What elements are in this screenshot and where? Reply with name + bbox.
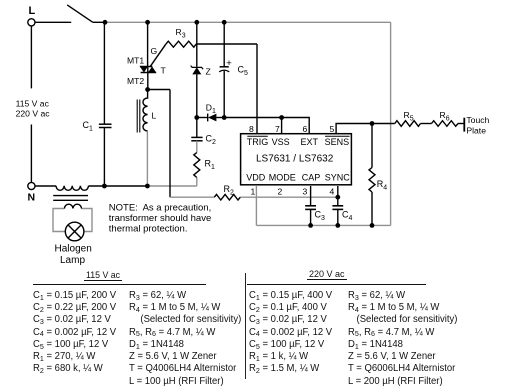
- wire R5 to R6: [421, 123, 432, 125]
- triac T: [140, 22, 156, 89]
- svg-text:VDD: VDD: [246, 172, 266, 182]
- node top junction switch: [103, 20, 108, 25]
- capacitor C1: [99, 22, 112, 186]
- svg-text:CAP: CAP: [302, 172, 321, 182]
- wire transformer to C1 junction: [89, 185, 148, 187]
- table 115 right column: [129, 290, 241, 388]
- svg-text:G: G: [151, 46, 158, 56]
- svg-text:NOTE: As a precaution,: NOTE: As a precaution,: [109, 203, 211, 214]
- svg-text:C3: C3: [315, 210, 326, 223]
- svg-text:L: L: [29, 5, 36, 17]
- svg-text:6: 6: [303, 124, 308, 134]
- svg-text:SENS: SENS: [325, 137, 350, 147]
- IC U1 LS7631/LS7632: [241, 134, 352, 185]
- touch plate bar: [463, 118, 465, 132]
- node MT2 junction: [145, 87, 150, 92]
- svg-text:Touch: Touch: [466, 115, 489, 125]
- svg-text:2: 2: [278, 187, 283, 197]
- wire N line gray segment to R1: [147, 185, 196, 187]
- capacitor C4: [332, 186, 343, 225]
- resistor R1: [194, 153, 200, 178]
- wire from L terminal: [35, 21, 71, 23]
- parts table 220 V ac: [0, 0, 1, 1]
- gate wire G: [150, 44, 166, 67]
- svg-text:3: 3: [303, 187, 308, 197]
- wire C2 to R1: [196, 141, 198, 153]
- zener Z: [191, 22, 203, 117]
- resistor R6: [432, 121, 458, 127]
- wire L bottom: [146, 131, 148, 186]
- resistor R3: [166, 41, 196, 47]
- svg-text:L: L: [152, 111, 157, 121]
- left rail lower: [30, 125, 32, 183]
- node C4 bottom rail: [335, 223, 340, 228]
- svg-text:TRIG: TRIG: [247, 137, 268, 147]
- table rule 220: [247, 284, 426, 285]
- wire VSS pin 7: [281, 118, 283, 134]
- svg-text:R3: R3: [176, 27, 186, 40]
- svg-text:transformer should have: transformer should have: [109, 213, 211, 224]
- resistor R5: [395, 121, 421, 127]
- node Z bottom: [194, 115, 199, 120]
- wire VDD run: [170, 196, 338, 198]
- wire R2 vertical drop: [169, 90, 171, 198]
- svg-text:T: T: [161, 66, 167, 76]
- svg-text:5: 5: [330, 124, 335, 134]
- svg-text:Z: Z: [206, 67, 211, 77]
- inductor core: [137, 100, 140, 133]
- lamp: [65, 222, 84, 241]
- transformer primary coil: [56, 186, 88, 191]
- svg-text:thermal protection.: thermal protection.: [109, 224, 188, 235]
- wire bottom rail: [256, 224, 390, 226]
- table rule 115: [33, 284, 206, 285]
- svg-text:R6: R6: [440, 110, 450, 123]
- node C3 bottom rail: [308, 223, 313, 228]
- svg-text:+: +: [226, 58, 232, 69]
- left rail upper: [30, 26, 32, 89]
- svg-text:4: 4: [330, 187, 335, 197]
- wire MT2 junction to R2 drop: [148, 89, 170, 91]
- wire switch to junction: [93, 21, 105, 23]
- table divider: [245, 273, 246, 380]
- svg-text:MT2: MT2: [127, 76, 144, 86]
- svg-text:Halogen: Halogen: [55, 244, 92, 255]
- svg-text:Plate: Plate: [466, 125, 486, 135]
- pin label TRIG with overline: [247, 136, 268, 147]
- node R4 top: [370, 121, 375, 126]
- parts table 115 V ac: [0, 0, 1, 1]
- resistor R4: [369, 124, 375, 226]
- svg-text:EXT: EXT: [301, 137, 319, 147]
- svg-text:115 V ac: 115 V ac: [16, 99, 50, 109]
- svg-text:C4: C4: [342, 210, 353, 223]
- node L bottom on N wire: [145, 184, 150, 189]
- node top junction MT1: [145, 20, 150, 25]
- transformer secondary coil: [64, 204, 81, 208]
- svg-text:8: 8: [249, 124, 254, 134]
- wire R3 to TRIG: [196, 43, 257, 45]
- node R4 bottom rail: [370, 223, 375, 228]
- node C5 bottom: [222, 115, 227, 120]
- wire top rail: [105, 21, 391, 23]
- table header 115 V ac: [84, 270, 122, 281]
- svg-text:1: 1: [251, 187, 256, 197]
- svg-text:D1: D1: [206, 103, 216, 116]
- wire R6 to plate: [458, 123, 464, 125]
- capacitor C5: [219, 22, 229, 117]
- terminal L: [28, 19, 35, 26]
- pin label SENS with overline: [325, 136, 350, 147]
- wire N to transformer: [35, 185, 56, 187]
- svg-text:R1: R1: [205, 159, 216, 172]
- svg-text:C5: C5: [238, 65, 249, 78]
- wire pin1 VDD drop: [255, 186, 257, 225]
- resistor R2: [214, 194, 240, 200]
- inductor L coil: [143, 90, 148, 132]
- svg-text:VSS: VSS: [272, 137, 290, 147]
- svg-text:SYNC: SYNC: [325, 172, 351, 182]
- wire D1 to EXT: [224, 118, 309, 134]
- transformer core: [53, 196, 88, 201]
- node top junction Z: [194, 20, 199, 25]
- node VSS tap: [279, 115, 284, 120]
- node top junction C5: [222, 20, 227, 25]
- halogen lamp loop: [53, 209, 92, 232]
- svg-text:Lamp: Lamp: [60, 255, 85, 266]
- wire R1 bottom: [196, 178, 198, 187]
- table 220 right column: [348, 290, 457, 388]
- table header 220 V ac: [307, 269, 347, 280]
- wire right rail: [390, 22, 392, 225]
- svg-text:MT1: MT1: [127, 56, 144, 66]
- svg-text:LS7631 / LS7632: LS7631 / LS7632: [256, 154, 334, 165]
- capacitor C3: [305, 186, 316, 225]
- svg-text:N: N: [28, 191, 36, 203]
- diode D1: [197, 114, 224, 122]
- wire TRIG drop pin 8: [256, 44, 258, 134]
- svg-text:7: 7: [275, 124, 280, 134]
- svg-text:C2: C2: [206, 134, 217, 147]
- node C1 bottom: [102, 184, 107, 189]
- switch blade: [67, 5, 93, 22]
- svg-text:R4: R4: [377, 179, 388, 192]
- capacitor C2: [191, 118, 202, 141]
- wire SENS pin 5: [336, 124, 395, 134]
- svg-text:MODE: MODE: [269, 172, 296, 182]
- note text: [109, 203, 211, 235]
- svg-text:C1: C1: [83, 120, 94, 133]
- table 220 left column: [249, 290, 332, 376]
- terminal N: [28, 182, 35, 189]
- table 115 left column: [33, 290, 116, 376]
- svg-text:220 V ac: 220 V ac: [16, 109, 51, 119]
- node SYNC junction: [335, 195, 340, 200]
